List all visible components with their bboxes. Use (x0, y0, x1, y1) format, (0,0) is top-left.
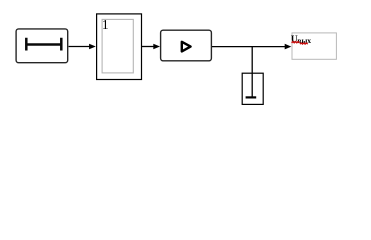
svg-text:1: 1 (102, 17, 109, 32)
